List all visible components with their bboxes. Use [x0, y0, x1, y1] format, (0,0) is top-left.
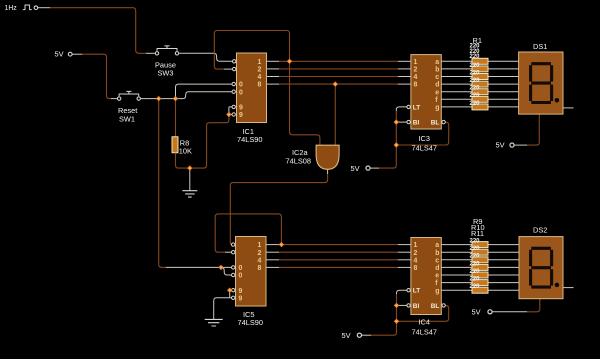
wire 5V rail vertical IC3: [379, 111, 396, 168]
svg-text:220: 220: [470, 63, 481, 69]
wire IC3 BI stub: [396, 121, 407, 123]
wire Pause switch to IC1 CKA: [179, 53, 232, 61]
wire IC4 f to DS2 via R: [441, 282, 519, 284]
wire IC5 pin4 to IC4 pin4: [266, 259, 279, 261]
op IC3 74LS47 decoder: [407, 55, 445, 153]
wire reset junction down to R8: [175, 99, 177, 137]
svg-text:74LS08: 74LS08: [286, 156, 311, 165]
wire IC3 b to DS1 via R: [441, 68, 518, 70]
wire IC1 pin2 to IC3 pin2: [267, 68, 280, 70]
svg-text:8: 8: [258, 82, 262, 89]
op IC1 74LS90 counter: [232, 53, 267, 144]
wire IC1 9,9 pin bracket: [229, 107, 232, 115]
node 5V terminal for DS2: [472, 308, 493, 317]
node junction IC5 9-9: [227, 288, 232, 293]
svg-text:0: 0: [239, 82, 243, 89]
wire IC3 g to DS1 via R: [441, 106, 518, 108]
svg-text:e: e: [435, 89, 439, 96]
node junction IC1 QD row: [333, 81, 338, 86]
wire junction to IC5 R0(2) pin: [221, 267, 231, 275]
wire IC1 QA(pin1) loop to CKB: [214, 31, 289, 70]
wire reset to IC1 R0(1) pin: [176, 84, 232, 99]
wire Reset switch to junctions: [141, 98, 176, 100]
svg-text:4: 4: [258, 257, 262, 264]
node junction R8 ground: [187, 165, 192, 170]
svg-text:74LS90: 74LS90: [238, 318, 263, 327]
svg-text:220: 220: [470, 261, 481, 267]
node junction reset-IC5 branch: [156, 96, 161, 101]
label Reset SW1: [118, 106, 137, 124]
svg-text:b: b: [435, 250, 439, 257]
svg-text:g: g: [435, 288, 439, 295]
svg-text:1: 1: [414, 59, 418, 66]
svg-text:c: c: [435, 74, 439, 81]
switch SW3 Pause pushbutton: [155, 46, 178, 55]
wire reset down to IC5 R0 pins: [159, 99, 166, 268]
node 5V terminal for IC3: [351, 164, 371, 173]
svg-text:0: 0: [239, 265, 243, 272]
svg-text:1: 1: [258, 59, 262, 66]
display DS2 7-segment: [519, 226, 563, 299]
wire DS2 common to 5V: [527, 299, 540, 312]
svg-text:5V: 5V: [55, 50, 64, 59]
node 5V terminal for IC4: [342, 331, 362, 340]
wire reset to IC1 R0(2) pin: [176, 92, 232, 99]
wire IC1 pin8 to IC3 pin8: [267, 83, 280, 85]
svg-text:5V: 5V: [472, 308, 481, 317]
svg-text:9: 9: [239, 288, 243, 295]
node 5V terminal for DS1: [496, 141, 515, 150]
resistor network R9 220x7: [470, 217, 489, 293]
resistor R8 10K: [172, 137, 192, 156]
svg-text:220: 220: [470, 78, 481, 84]
svg-text:220: 220: [470, 254, 481, 260]
wire IC4 d to DS2 via R: [441, 266, 519, 268]
svg-text:DS2: DS2: [533, 226, 547, 235]
display DS1 7-segment: [519, 42, 563, 114]
node 1Hz clock terminal: [5, 5, 38, 12]
svg-text:220: 220: [470, 246, 481, 252]
wire IC3 BL loop to 5V rail: [396, 122, 448, 145]
svg-text:SW3: SW3: [158, 69, 174, 78]
ground below IC5: [205, 319, 223, 326]
svg-text:9: 9: [239, 112, 243, 119]
svg-text:4: 4: [258, 74, 262, 81]
wire IC3 LT to 5V rail: [396, 107, 407, 111]
wire IC5 pin1 to IC4 pin1: [266, 244, 279, 246]
wire IC3 d to DS1 via R: [441, 83, 518, 85]
svg-text:BI: BI: [413, 303, 420, 310]
node junction IC5 QA row: [279, 242, 284, 247]
svg-text:a: a: [435, 59, 439, 66]
node junction IC3 BI: [394, 119, 399, 124]
node junction reset-R8 branch: [173, 96, 178, 101]
svg-text:b: b: [435, 67, 439, 74]
svg-text:220: 220: [470, 269, 481, 275]
svg-text:5V: 5V: [351, 164, 360, 173]
wire IC1 pin1 to IC3 pin1: [267, 60, 280, 62]
wire IC4 BI stub: [397, 304, 407, 306]
wire IC4 LT to 5V rail: [397, 290, 407, 294]
wire 1Hz terminal to Pause switch: [38, 7, 50, 9]
wire DS1 common to 5V: [527, 114, 539, 145]
svg-text:IC4: IC4: [419, 317, 431, 326]
wire IC4 g to DS2 via R: [441, 289, 519, 291]
svg-text:2: 2: [258, 250, 262, 257]
wire IC4 BL loop to 5V rail: [397, 305, 449, 321]
svg-text:LT: LT: [413, 288, 420, 295]
node junction IC1 QA row: [287, 59, 292, 64]
svg-text:8: 8: [414, 82, 418, 89]
wire IC4 c to DS2 via R: [441, 259, 519, 261]
svg-text:1: 1: [414, 242, 418, 249]
node junction IC4 BI: [394, 303, 399, 308]
svg-text:8: 8: [258, 265, 262, 272]
svg-text:74LS47: 74LS47: [412, 328, 437, 337]
wire IC4 e to DS2 via R: [441, 274, 519, 276]
node junction IC3 BL: [394, 142, 399, 147]
svg-text:0: 0: [239, 89, 243, 96]
svg-text:R11: R11: [471, 229, 484, 238]
svg-text:10K: 10K: [179, 147, 192, 156]
svg-text:220: 220: [470, 54, 481, 60]
svg-text:a: a: [435, 242, 439, 249]
svg-text:220: 220: [470, 277, 481, 283]
svg-text:2: 2: [258, 67, 262, 74]
svg-text:220: 220: [470, 238, 481, 244]
node junction IC4 BL: [394, 319, 399, 324]
wire IC3 f to DS1 via R: [441, 98, 518, 100]
svg-text:220: 220: [470, 284, 481, 290]
svg-text:220: 220: [470, 101, 481, 107]
svg-text:BI: BI: [413, 120, 420, 127]
svg-text:2: 2: [414, 250, 418, 257]
svg-text:9: 9: [239, 105, 243, 112]
svg-text:e: e: [435, 273, 439, 280]
svg-text:LT: LT: [413, 104, 420, 111]
wire IC4 a to DS2 via R: [441, 244, 519, 246]
svg-text:220: 220: [470, 86, 481, 92]
svg-text:74LS90: 74LS90: [237, 135, 262, 144]
wire 5V rail vertical IC4: [371, 294, 397, 335]
svg-text:2: 2: [414, 67, 418, 74]
svg-text:220: 220: [470, 93, 481, 99]
wire R8 bottom to ground and IC1 9,9 pins: [176, 115, 229, 169]
wire IC1 pin4 to IC3 pin4: [267, 76, 280, 78]
wire IC4 b to DS2 via R: [441, 251, 519, 253]
switch SW1 Reset pushbutton: [117, 91, 140, 100]
label Pause SW3: [155, 60, 176, 77]
svg-text:d: d: [435, 265, 439, 272]
svg-text:g: g: [435, 105, 439, 112]
op IC5 74LS90 counter: [232, 237, 267, 328]
wire IC5 pin2 to IC4 pin2: [266, 251, 279, 253]
svg-text:BL: BL: [431, 303, 440, 310]
node junction IC5 reset pins: [218, 265, 223, 270]
node 5V input terminal: [55, 50, 73, 59]
svg-text:220: 220: [470, 70, 481, 76]
wire IC5 9,9 pin bracket to ground: [214, 290, 232, 319]
wire DS2 right stub: [563, 287, 574, 289]
wire AND gate output to IC5 CKA: [327, 169, 329, 174]
wire IC1 QA junction down to AND gate input A: [290, 61, 320, 145]
wire 5V to Reset switch: [72, 53, 82, 55]
svg-text:c: c: [435, 257, 439, 264]
wire IC5 pin8 to IC4 pin8: [266, 266, 279, 268]
svg-text:5V: 5V: [496, 141, 505, 150]
svg-text:SW1: SW1: [119, 114, 135, 123]
resistor network R1 220x7: [470, 36, 489, 110]
svg-text:4: 4: [414, 74, 418, 81]
wire IC3 a to DS1 via R: [441, 60, 518, 62]
op-amp IC2a 74LS08 AND gate: [286, 145, 340, 169]
svg-text:8: 8: [414, 265, 418, 272]
svg-text:IC3: IC3: [419, 134, 431, 143]
wire IC1 QD junction down to AND gate input B: [334, 84, 336, 145]
node junction IC1 9-9: [226, 112, 231, 117]
svg-text:4: 4: [414, 257, 418, 264]
svg-text:1Hz: 1Hz: [5, 5, 18, 12]
wire IC5 QA(pin1) loop to CKB: [215, 214, 281, 252]
svg-text:1: 1: [258, 242, 262, 249]
ground below R8: [182, 168, 197, 197]
svg-text:0: 0: [239, 273, 243, 280]
svg-text:74LS47: 74LS47: [412, 143, 437, 152]
svg-text:DS1: DS1: [533, 42, 547, 51]
svg-text:9: 9: [239, 295, 243, 302]
svg-text:BL: BL: [431, 120, 440, 127]
op IC4 74LS47 decoder: [407, 238, 445, 337]
svg-text:5V: 5V: [342, 331, 351, 340]
wire DS1 right stub: [563, 107, 574, 109]
svg-text:d: d: [435, 82, 439, 89]
wire IC3 e to DS1 via R: [441, 91, 518, 93]
wire IC3 c to DS1 via R: [441, 76, 518, 78]
